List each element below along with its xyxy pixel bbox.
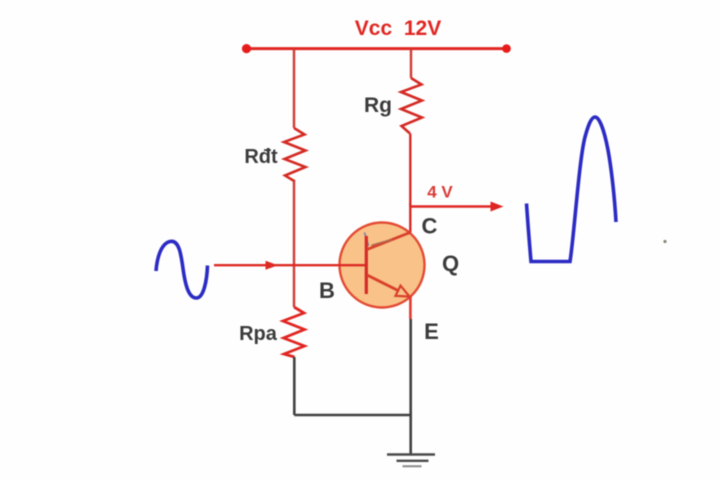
resistor Rpa zigzag <box>283 307 305 357</box>
Vcc supply rail wire <box>246 47 507 50</box>
rail right terminal dot <box>502 44 511 53</box>
wire Rpa to bottom rail (black) <box>293 357 296 415</box>
rail left terminal dot <box>242 44 251 53</box>
emitter wire black segment <box>409 319 412 454</box>
wire Rg to collector node <box>409 134 411 207</box>
emitter wire red segment <box>409 296 412 319</box>
svg-text:Rg: Rg <box>364 94 392 117</box>
emitter arrowhead (open triangle) <box>396 286 410 297</box>
svg-text:Rpa: Rpa <box>239 323 278 345</box>
ground symbol bar 3 <box>403 465 422 467</box>
input sine wave <box>156 241 208 298</box>
transistor Q body circle <box>340 223 425 308</box>
resistor Rdt zigzag <box>284 128 306 182</box>
svg-text:E: E <box>424 319 439 344</box>
output waveform (clipped sine) <box>527 117 617 262</box>
resistor Rg zigzag <box>401 78 422 134</box>
svg-text:4 V: 4 V <box>427 183 453 202</box>
small speck artifact <box>663 240 666 243</box>
4V output arrow wire <box>410 205 494 208</box>
4V arrowhead <box>491 202 504 212</box>
svg-text:Vcc 12V: Vcc 12V <box>355 17 441 40</box>
transistor base bar <box>365 236 368 294</box>
svg-text:Q: Q <box>442 251 459 276</box>
emitter stroke inside transistor <box>367 275 399 291</box>
bottom ground wire <box>294 414 410 417</box>
ground symbol bar 1 <box>387 453 435 456</box>
gray annotation tick above base bar <box>365 233 369 247</box>
collector stroke echo <box>372 240 393 246</box>
wire rail to resistor Rg <box>410 49 412 78</box>
wire Rdt to base node <box>293 182 295 308</box>
svg-text:Rđt: Rđt <box>244 146 278 168</box>
input wire arrowhead <box>266 261 279 270</box>
collector stroke inside transistor <box>367 233 410 250</box>
wire node to collector <box>409 203 411 233</box>
wire rail to resistor Rdt <box>293 49 295 128</box>
ground symbol bar 2 <box>397 460 429 462</box>
svg-text:B: B <box>319 278 335 303</box>
input signal wire <box>214 264 366 266</box>
svg-text:C: C <box>422 214 438 239</box>
